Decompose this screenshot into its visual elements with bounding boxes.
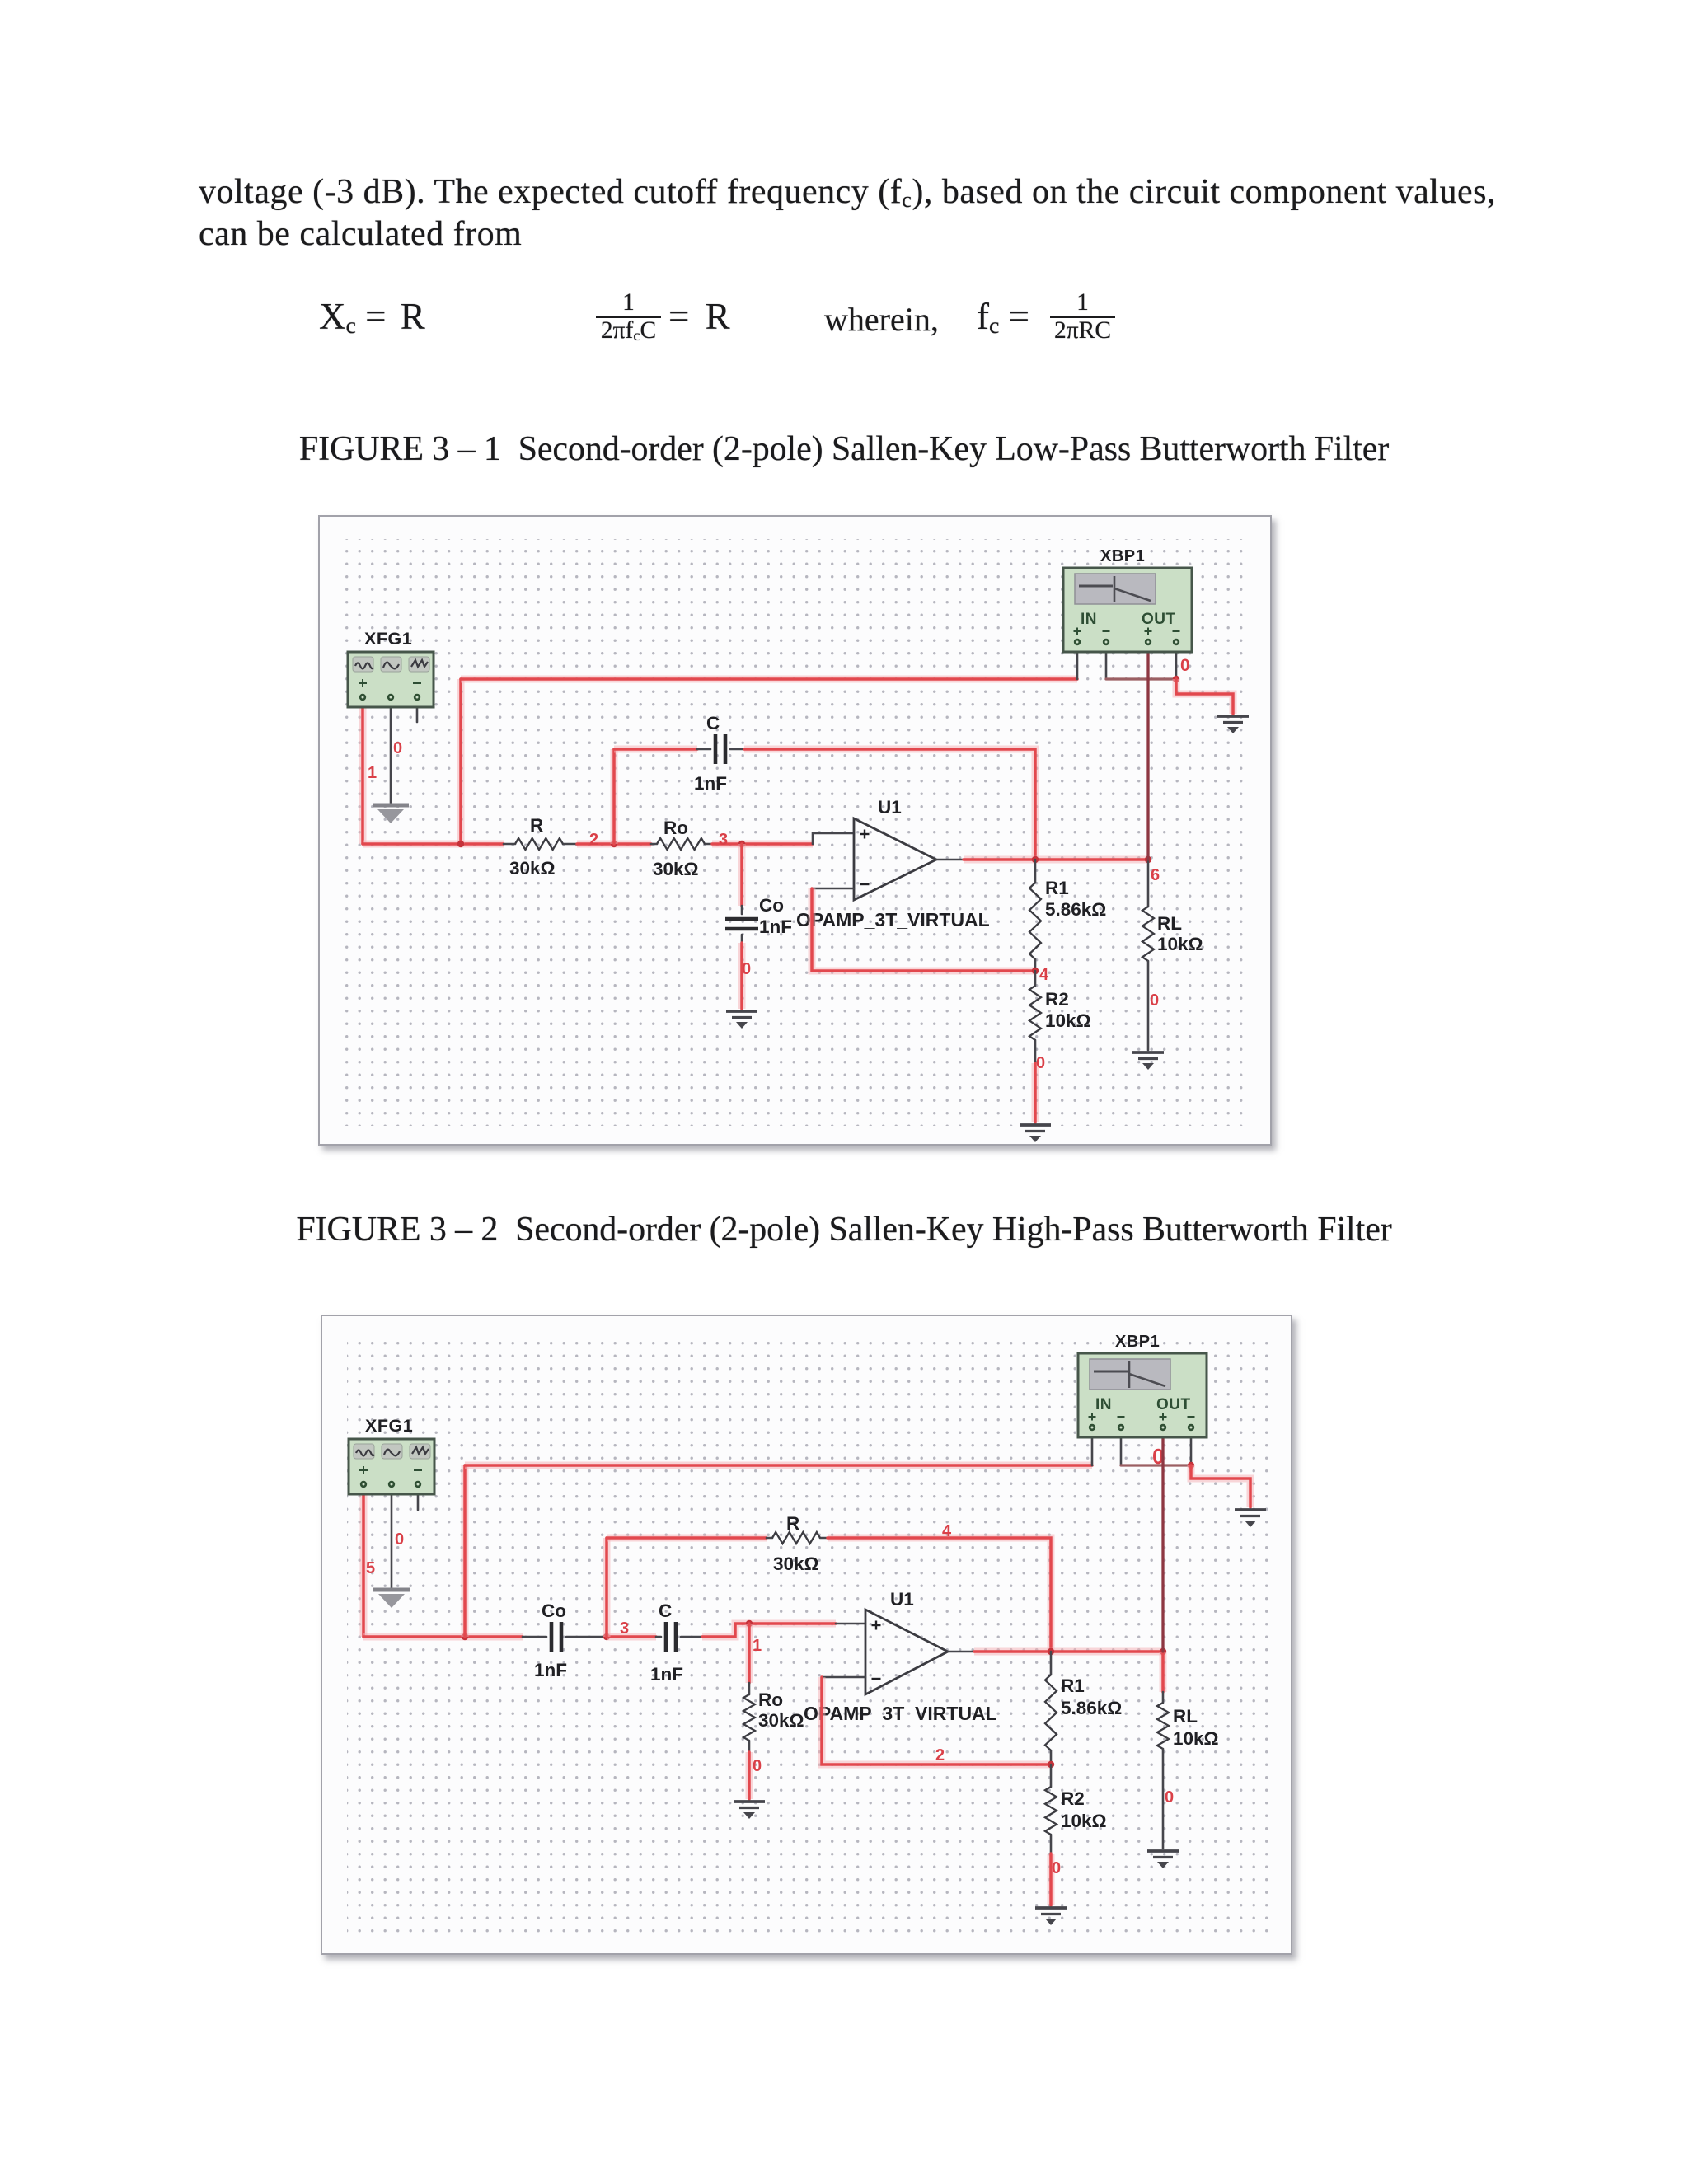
resistor R2 — [1045, 1787, 1057, 1835]
svg-text:30kΩ: 30kΩ — [758, 1710, 804, 1731]
svg-text:Ro: Ro — [758, 1690, 783, 1710]
wire junction riser to top line — [462, 1465, 469, 1637]
function generator XFG1 — [349, 1416, 434, 1494]
wire C right to output node — [744, 749, 1035, 860]
ground XFG1 common — [373, 1588, 410, 1592]
ground XBP1 — [1217, 716, 1249, 723]
svg-text:RL: RL — [1157, 913, 1182, 934]
svg-text:0: 0 — [1036, 1054, 1045, 1072]
node 4 dot — [1032, 968, 1039, 974]
resistor R2 — [1029, 986, 1041, 1040]
bode plotter XBP1 — [1078, 1333, 1207, 1437]
wire Co to ground — [738, 943, 746, 1009]
wire op-amp output lead — [936, 859, 964, 861]
wire feedback riser from node 3 — [603, 1538, 611, 1637]
ground XBP1 — [1235, 1510, 1266, 1516]
junction dot output RL — [1160, 1648, 1166, 1655]
wire top line to XBP1 IN+ — [461, 676, 1077, 683]
wire feedback left segment — [607, 1535, 767, 1542]
svg-text:Ro: Ro — [663, 818, 688, 838]
resistor R — [772, 1532, 820, 1544]
wire to op-amp plus input — [836, 1623, 865, 1625]
node 6 dot — [1145, 856, 1151, 863]
capacitor Co leads — [741, 906, 743, 914]
svg-text:OPAMP_3T_VIRTUAL: OPAMP_3T_VIRTUAL — [804, 1703, 997, 1724]
node 3 dot — [738, 841, 745, 847]
svg-text:1nF: 1nF — [534, 1660, 567, 1680]
resistor Ro — [657, 838, 705, 850]
stub XBP1 IN- — [1105, 645, 1108, 679]
node 2 dot — [611, 841, 617, 847]
svg-text:R1: R1 — [1045, 878, 1069, 898]
resistor R1 — [1029, 883, 1041, 959]
wire feedback right to output node — [828, 1538, 1051, 1652]
wire XFG1 plus to main line node 1 — [359, 702, 367, 844]
node 3 dot — [603, 1633, 610, 1640]
stub XBP1 IN+ — [1091, 1431, 1094, 1465]
svg-text:0: 0 — [1150, 991, 1159, 1010]
wire C to node 1 — [702, 1624, 836, 1637]
capacitor Co leads — [523, 1636, 546, 1638]
svg-text:0: 0 — [1052, 1859, 1061, 1877]
stub XBP1 IN+ — [1076, 645, 1079, 679]
resistor R2 leads — [1050, 1765, 1053, 1787]
svg-text:0: 0 — [1180, 656, 1190, 675]
ground RL — [1147, 1851, 1179, 1858]
paragraph text — [199, 173, 1583, 254]
svg-text:C: C — [659, 1601, 672, 1621]
wire junction riser to top line — [457, 679, 465, 844]
ground R2 — [1020, 1125, 1051, 1132]
junction dot input — [457, 841, 464, 847]
svg-text:1nF: 1nF — [650, 1664, 683, 1685]
svg-text:0: 0 — [395, 1530, 404, 1549]
op-amp U1 — [854, 818, 936, 900]
wire to op-amp plus input — [813, 833, 854, 844]
wire main input line — [363, 1633, 523, 1641]
wire RL to ground — [1162, 1749, 1165, 1849]
wire XFG1 common to ground — [390, 702, 392, 804]
node 2 dot — [1048, 1761, 1054, 1768]
stub XFG1 minus — [416, 702, 419, 722]
stub XBP1 OUT- — [1190, 1431, 1193, 1465]
FIGURE 2: high-pass Sallen-Key schematic — [321, 1315, 1292, 1955]
ground Ro — [734, 1802, 765, 1808]
svg-text:XFG1: XFG1 — [364, 629, 412, 649]
wire op-amp minus lead — [812, 888, 854, 890]
resistor R1 leads — [1050, 1652, 1053, 1675]
svg-text:1nF: 1nF — [694, 773, 727, 794]
wire main input line — [363, 841, 504, 848]
resistor R 30k leads — [504, 843, 515, 846]
caption figure 3-1 — [0, 429, 1688, 469]
svg-text:R: R — [786, 1513, 799, 1534]
capacitor C leads — [656, 1636, 661, 1638]
svg-text:IN: IN — [1081, 611, 1097, 628]
wire XFG1 common to ground — [391, 1489, 393, 1588]
svg-text:RL: RL — [1173, 1706, 1198, 1727]
svg-text:R: R — [530, 815, 543, 836]
wire Co riser — [738, 844, 746, 906]
wire IN- to OUT- ground net — [1121, 1464, 1191, 1466]
svg-text:1: 1 — [368, 764, 377, 782]
resistor R2 leads — [1034, 971, 1037, 986]
svg-text:U1: U1 — [878, 797, 902, 818]
svg-text:1nF: 1nF — [759, 916, 792, 937]
capacitor C — [715, 734, 725, 764]
svg-text:10kΩ: 10kΩ — [1157, 934, 1203, 954]
junction dot output R1 — [1032, 856, 1039, 863]
junction dot output R1 — [1048, 1648, 1054, 1655]
wire node6 to RL — [1147, 860, 1150, 907]
resistor Ro leads — [748, 1683, 751, 1694]
svg-text:30kΩ: 30kΩ — [509, 858, 556, 879]
resistor RL — [1142, 907, 1154, 961]
wire OUT+ to node 6 — [1146, 645, 1149, 860]
resistor R1 — [1045, 1675, 1057, 1750]
svg-text:30kΩ: 30kΩ — [773, 1554, 819, 1574]
svg-text:3: 3 — [719, 831, 728, 849]
resistor R — [515, 838, 563, 850]
wire R2 to ground — [1048, 1854, 1055, 1905]
svg-text:10kΩ: 10kΩ — [1045, 1010, 1091, 1031]
svg-text:0: 0 — [1165, 1788, 1174, 1807]
svg-text:R2: R2 — [1061, 1788, 1085, 1809]
svg-text:0: 0 — [753, 1757, 762, 1775]
wire node to RL — [1160, 1652, 1167, 1692]
svg-text:4: 4 — [1039, 966, 1049, 984]
junction dot net 0 — [1188, 1462, 1194, 1469]
svg-text:10kΩ: 10kΩ — [1173, 1728, 1219, 1749]
wire OUT- to ground — [1176, 679, 1233, 714]
svg-text:R2: R2 — [1045, 989, 1069, 1010]
ground XFG1 common — [373, 804, 409, 808]
ground R2 — [1035, 1908, 1067, 1915]
svg-text:10kΩ: 10kΩ — [1061, 1811, 1107, 1831]
wire node 2 segment — [577, 841, 651, 848]
svg-text:XBP1: XBP1 — [1100, 547, 1145, 565]
svg-text:OUT: OUT — [1156, 1396, 1191, 1413]
wire node3 to C — [607, 1633, 656, 1641]
wire feedback from node 4 — [812, 888, 1035, 971]
FIGURE 1: low-pass Sallen-Key schematic — [318, 515, 1272, 1146]
wire OUT- to ground — [1191, 1465, 1250, 1507]
stub XFG1 minus — [417, 1489, 420, 1510]
svg-text:2: 2 — [935, 1746, 945, 1765]
capacitor C leads — [697, 748, 710, 751]
svg-text:4: 4 — [942, 1522, 952, 1540]
svg-text:1: 1 — [753, 1637, 762, 1655]
wire node 3 segment — [712, 841, 813, 848]
op-amp U1 — [865, 1610, 948, 1694]
svg-text:0: 0 — [393, 739, 402, 757]
resistor Ro — [743, 1694, 755, 1741]
wire op-amp output lead — [948, 1651, 974, 1653]
wire Ro to ground — [746, 1752, 753, 1799]
resistor R leads — [767, 1537, 772, 1540]
capacitor Co — [725, 919, 758, 929]
junction dot input — [462, 1633, 468, 1640]
svg-text:OUT: OUT — [1142, 611, 1176, 628]
svg-text:0: 0 — [742, 960, 751, 978]
svg-text:C: C — [706, 713, 720, 733]
svg-text:5: 5 — [366, 1559, 375, 1577]
wire C branch riser — [611, 749, 618, 844]
svg-text:U1: U1 — [890, 1589, 914, 1610]
svg-text:Co: Co — [759, 895, 784, 916]
svg-text:2: 2 — [589, 831, 598, 849]
resistor Ro leads — [651, 843, 657, 846]
wire node1 to Ro — [746, 1624, 753, 1683]
svg-text:XBP1: XBP1 — [1115, 1333, 1160, 1351]
wire output line — [964, 856, 1148, 864]
svg-text:XFG1: XFG1 — [365, 1416, 413, 1436]
svg-text:IN: IN — [1095, 1396, 1112, 1413]
capacitor Co — [551, 1622, 561, 1652]
svg-text:5.86kΩ: 5.86kΩ — [1061, 1698, 1122, 1718]
resistor RL — [1157, 1703, 1169, 1749]
function generator XFG1 — [348, 629, 434, 707]
wire output line — [974, 1648, 1163, 1656]
stub XBP1 IN- — [1120, 1431, 1123, 1465]
svg-text:OPAMP_3T_VIRTUAL: OPAMP_3T_VIRTUAL — [796, 909, 990, 930]
svg-text:6: 6 — [1151, 866, 1160, 884]
ground RL — [1132, 1052, 1164, 1059]
wire R2 to ground — [1032, 1063, 1039, 1122]
caption figure 3-2 — [0, 1210, 1688, 1249]
svg-text:R1: R1 — [1061, 1675, 1085, 1696]
svg-text:Co: Co — [542, 1601, 566, 1621]
ground Co — [726, 1011, 757, 1018]
wire op-amp minus lead — [822, 1676, 865, 1679]
formula row — [319, 295, 425, 338]
wire OUT+ to output node — [1161, 1431, 1164, 1652]
wire feedback from node 2 — [822, 1677, 1051, 1765]
svg-text:30kΩ: 30kΩ — [653, 859, 699, 879]
svg-text:5.86kΩ: 5.86kΩ — [1045, 899, 1106, 920]
wire C left — [614, 746, 697, 753]
wire RL to ground — [1147, 961, 1150, 1050]
bode plotter XBP1 — [1063, 547, 1192, 652]
junction dot net 0 — [1173, 676, 1179, 682]
capacitor C — [666, 1622, 676, 1652]
wire top line to XBP1 IN+ — [465, 1462, 1092, 1469]
node 1 dot — [746, 1620, 753, 1627]
wire IN- to OUT- ground net — [1106, 677, 1176, 680]
resistor R1 leads — [1034, 860, 1037, 883]
stub XBP1 OUT- — [1175, 645, 1178, 679]
wire XFG1 plus to main line node 5 — [360, 1489, 368, 1637]
